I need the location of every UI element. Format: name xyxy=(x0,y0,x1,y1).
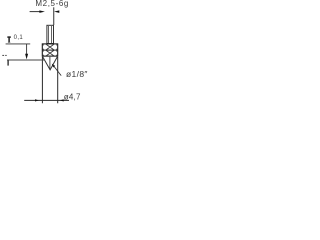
svg-text:ø1/8″: ø1/8″ xyxy=(66,69,88,79)
svg-text:0,1: 0,1 xyxy=(14,35,24,41)
svg-text:M2,5-6g: M2,5-6g xyxy=(35,0,69,8)
svg-text:ø4,7: ø4,7 xyxy=(64,92,81,101)
